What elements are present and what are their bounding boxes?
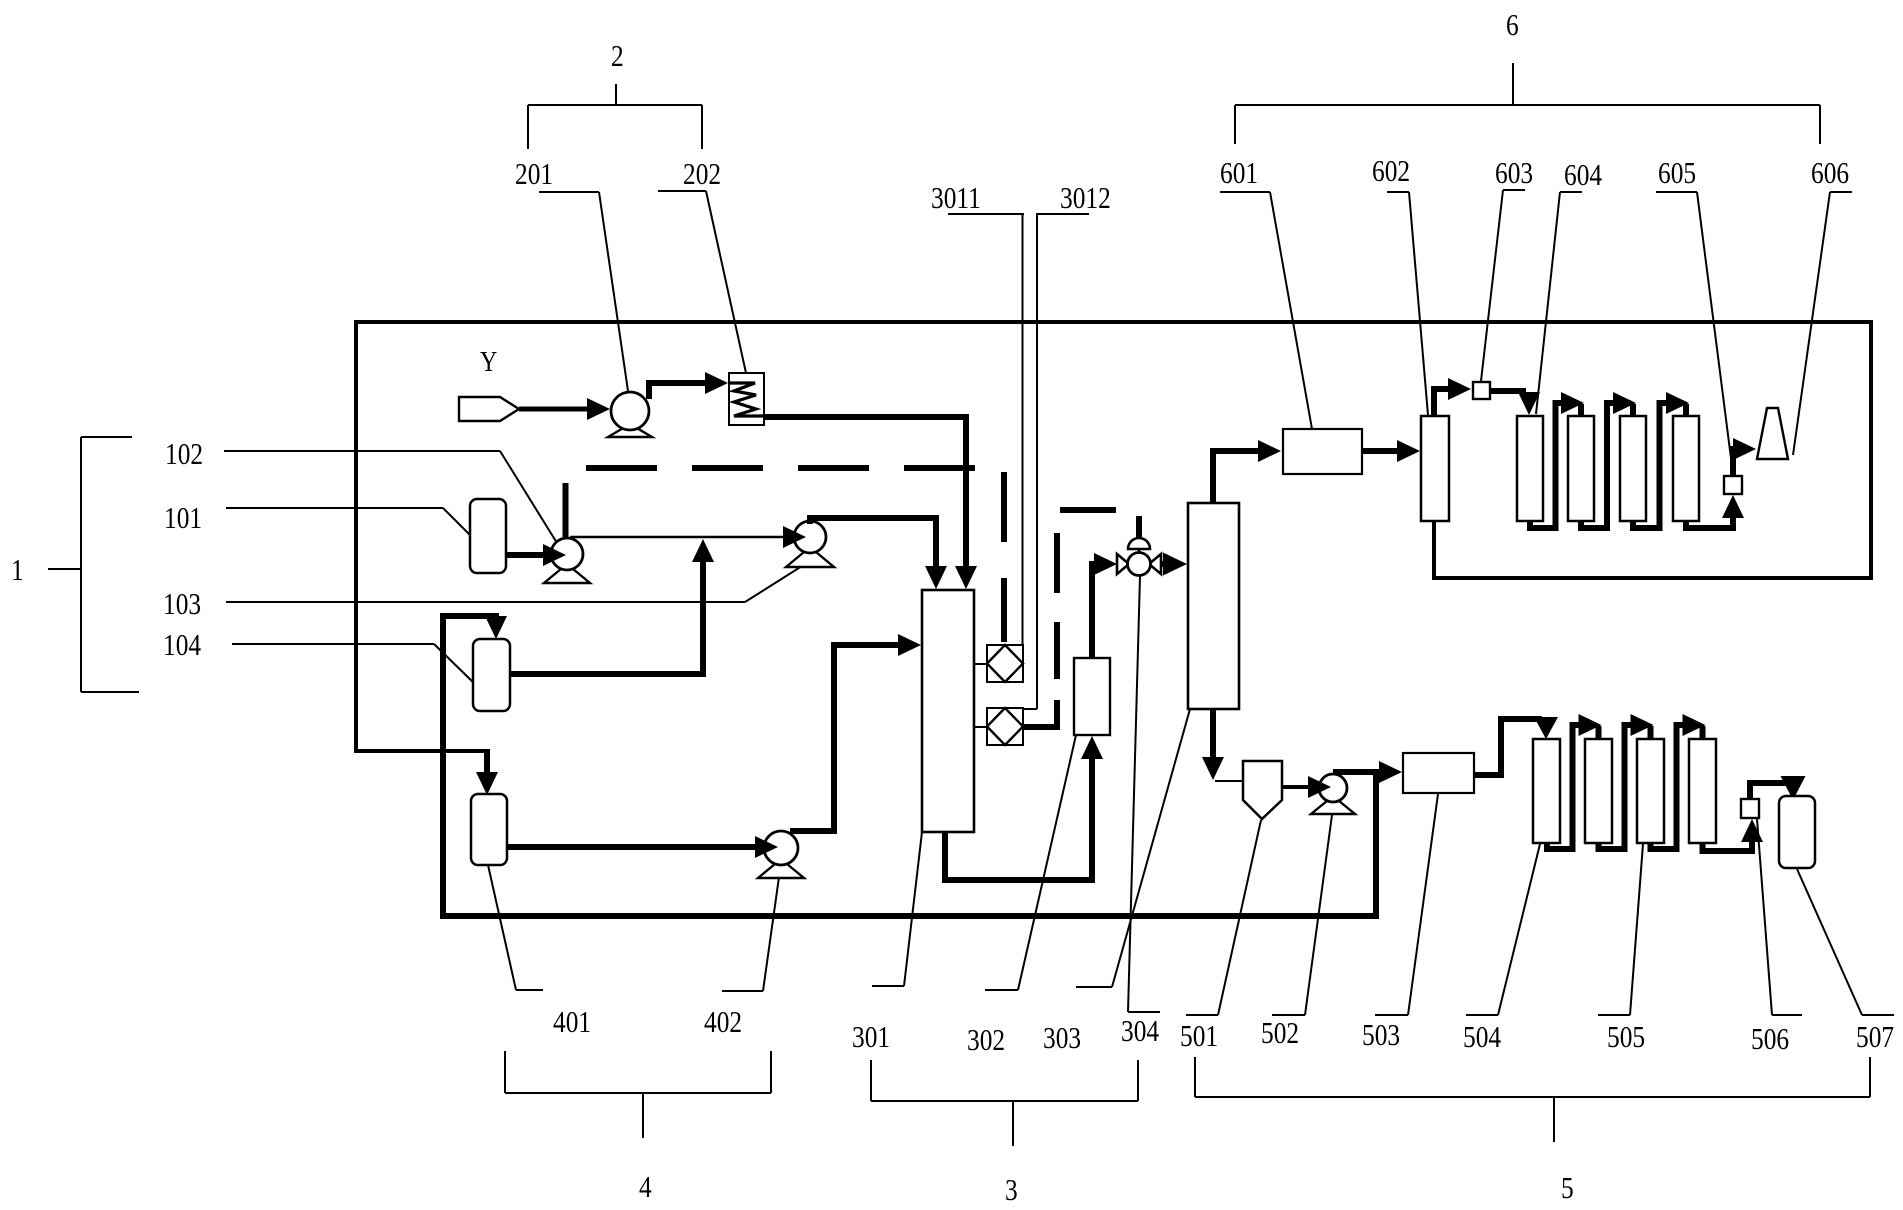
svg-text:601: 601 — [1220, 157, 1258, 191]
label 606 — [1811, 157, 1849, 191]
svg-text:4: 4 — [639, 1171, 652, 1205]
valve stem — [1136, 516, 1142, 539]
leader 507 — [1797, 869, 1894, 1015]
svg-text:201: 201 — [515, 158, 553, 192]
leader 603 — [1481, 190, 1525, 381]
pump 102 — [544, 538, 590, 583]
label 2 — [611, 40, 624, 74]
leader 3011 — [948, 214, 1024, 645]
svg-text:602: 602 — [1372, 155, 1410, 189]
signal dash vertical near valve — [1057, 510, 1116, 679]
pipe: column 303 bottom — [1202, 709, 1243, 781]
pump 502 — [1311, 774, 1355, 814]
svg-text:302: 302 — [967, 1024, 1005, 1058]
svg-text:604: 604 — [1564, 159, 1602, 193]
pipe: square 506 to vessel 507 — [1750, 776, 1806, 800]
label 304 — [1121, 1015, 1159, 1049]
svg-text:1: 1 — [11, 554, 24, 588]
svg-text:504: 504 — [1463, 1021, 1501, 1055]
svg-text:101: 101 — [164, 502, 202, 536]
svg-text:605: 605 — [1658, 157, 1696, 191]
square 605 — [1724, 476, 1742, 494]
leader 506 — [1757, 819, 1802, 1015]
pump 201 — [608, 392, 652, 437]
connector 504c-d — [1651, 714, 1706, 849]
svg-text:Y: Y — [480, 345, 497, 378]
pipe: Y to pump 201 — [519, 398, 610, 420]
pipe: square 603 to column 604a — [1490, 391, 1540, 415]
leader 303 — [1076, 709, 1190, 987]
leader 302 — [985, 735, 1076, 990]
svg-text:2: 2 — [611, 40, 624, 74]
vessel 302 — [1074, 658, 1110, 735]
svg-text:304: 304 — [1121, 1015, 1159, 1049]
pipe: feed into vessel 104 — [443, 616, 507, 913]
square 603 — [1473, 382, 1490, 399]
svg-text:402: 402 — [704, 1006, 742, 1040]
pipe: vessel 101 to pump 102 — [506, 544, 566, 566]
label 5 — [1561, 1172, 1574, 1206]
separator 501 — [1243, 761, 1282, 819]
svg-text:401: 401 — [553, 1006, 591, 1040]
leader 604 — [1536, 192, 1582, 414]
leader 601 — [1220, 192, 1312, 429]
square 506 — [1741, 799, 1759, 818]
svg-text:503: 503 — [1362, 1019, 1400, 1053]
label 202 — [683, 158, 721, 192]
label 401 — [553, 1006, 591, 1040]
svg-text:603: 603 — [1495, 157, 1533, 191]
pipe: box 503 to column 504a — [1474, 717, 1558, 775]
leader 101 — [226, 508, 471, 536]
pipe: square 605 to chimney 606 — [1733, 438, 1756, 476]
connector 504a-b — [1547, 714, 1602, 849]
filter stub 3012 — [974, 726, 987, 728]
label 502 — [1261, 1017, 1299, 1051]
pipe: recycle loop top/left/right — [356, 322, 1871, 751]
vessel 104 — [473, 639, 510, 711]
column 303 — [1188, 503, 1239, 709]
label 102 — [165, 438, 203, 472]
svg-text:507: 507 — [1856, 1021, 1894, 1055]
leader 501 — [1186, 820, 1261, 1015]
filter 3012 — [987, 708, 1023, 745]
label 507 — [1856, 1021, 1894, 1055]
filter 3011 — [987, 645, 1023, 682]
label 301 — [852, 1021, 890, 1055]
group bracket 1 — [48, 437, 139, 692]
bracket 6 — [1235, 63, 1820, 144]
svg-text:501: 501 — [1180, 1020, 1218, 1054]
label 3012 — [1060, 182, 1111, 216]
label 201 — [515, 158, 553, 192]
label 602 — [1372, 155, 1410, 189]
vessel 401 — [471, 794, 507, 865]
svg-text:104: 104 — [163, 629, 201, 663]
box 601 — [1283, 429, 1362, 474]
label 506 — [1751, 1023, 1789, 1057]
label 103 — [163, 588, 201, 622]
svg-text:202: 202 — [683, 158, 721, 192]
box 503 — [1403, 753, 1474, 793]
svg-text:3011: 3011 — [931, 182, 981, 216]
leader 102 — [224, 451, 557, 543]
bracket 3 — [871, 1060, 1138, 1146]
pipe: column 301 bottom to vessel 302 — [945, 736, 1103, 880]
svg-text:606: 606 — [1811, 157, 1849, 191]
pipe: filter 3012 elbow — [1023, 700, 1057, 727]
pipe: valve 304 to column 303 — [1161, 553, 1187, 576]
leader 402 — [722, 877, 779, 991]
leader 103 — [226, 566, 802, 602]
leader 301 — [872, 832, 922, 986]
column 301 — [922, 590, 974, 832]
svg-text:506: 506 — [1751, 1023, 1789, 1057]
leader 504 — [1466, 844, 1540, 1015]
pipe: HX 202 to column 301 — [764, 417, 977, 589]
leader 401 — [488, 865, 543, 990]
pump 103 — [786, 521, 834, 567]
pipe: 501 to pump 502 — [1282, 776, 1331, 798]
bracket 2 — [528, 84, 702, 149]
leader 505 — [1598, 844, 1643, 1015]
pipe: column 303 to box 601 — [1213, 440, 1281, 503]
signal dash vertical to filter 3011 — [1001, 472, 1007, 642]
label 303 — [1043, 1022, 1081, 1056]
pipe: drop into vessel 401 — [476, 749, 498, 795]
column 504-train 2 — [1585, 739, 1612, 843]
label 4 — [639, 1171, 652, 1205]
label 104 — [163, 629, 201, 663]
label 6 — [1506, 9, 1519, 43]
leader 104 — [232, 644, 479, 688]
bracket 5 — [1195, 1057, 1870, 1142]
pump 402 — [758, 831, 804, 878]
column 504-train 4 — [1689, 739, 1716, 843]
label 3 — [1005, 1174, 1018, 1208]
label 601 — [1220, 157, 1258, 191]
pipe: vessel 401 to pump 402 — [507, 836, 778, 858]
leader 606 — [1793, 192, 1852, 455]
label 505 — [1607, 1021, 1645, 1055]
connector 604b-c — [1581, 392, 1636, 528]
connector 504b-c — [1599, 714, 1654, 849]
svg-text:3012: 3012 — [1060, 182, 1111, 216]
leader 304 — [1128, 576, 1160, 1012]
svg-text:301: 301 — [852, 1021, 890, 1055]
column 504-train 3 — [1637, 739, 1664, 843]
leader 503 — [1375, 794, 1438, 1015]
pipe: bottom recycle line — [440, 913, 1379, 919]
svg-text:303: 303 — [1043, 1022, 1081, 1056]
connector 604c-d — [1633, 392, 1689, 528]
label 604 — [1564, 159, 1602, 193]
vessel 101 — [470, 499, 506, 573]
column 604-train 2 — [1568, 416, 1594, 521]
signal dash line horizontal — [586, 465, 976, 471]
pipe: column train to square 506 — [1703, 819, 1764, 851]
pipe: pump 103 to column 301 top — [810, 518, 947, 589]
pipe: pump 502 to box 503 — [1333, 761, 1402, 783]
label 501 — [1180, 1020, 1218, 1054]
leader 605 — [1656, 192, 1733, 474]
label Y — [480, 345, 497, 378]
leader 202 — [658, 191, 746, 373]
svg-text:5: 5 — [1561, 1172, 1574, 1206]
pipe: box 601 to column 602 — [1362, 440, 1420, 462]
pipe: column 602 to square 603 — [1434, 378, 1471, 416]
svg-text:502: 502 — [1261, 1017, 1299, 1051]
svg-text:6: 6 — [1506, 9, 1519, 43]
svg-text:103: 103 — [163, 588, 201, 622]
label 402 — [704, 1006, 742, 1040]
label 503 — [1362, 1019, 1400, 1053]
pipe: pump 201 to HX 202 — [649, 372, 728, 399]
bracket 4 — [505, 1051, 771, 1138]
leader 602 — [1387, 192, 1428, 415]
svg-text:102: 102 — [165, 438, 203, 472]
label 603 — [1495, 157, 1533, 191]
label 3011 — [931, 182, 981, 216]
label 504 — [1463, 1021, 1501, 1055]
leader 502 — [1272, 815, 1332, 1015]
leader 201 — [539, 192, 628, 391]
connector 604a-b — [1530, 392, 1584, 528]
column 604-train 1 — [1517, 416, 1543, 521]
chimney 606 — [1757, 408, 1788, 459]
label 101 — [164, 502, 202, 536]
valve 304 — [1117, 538, 1161, 576]
label 1 — [11, 554, 24, 588]
label 302 — [967, 1024, 1005, 1058]
svg-text:3: 3 — [1005, 1174, 1018, 1208]
stem above pump 102 — [563, 483, 569, 538]
pipe: vessel 104 outlet — [510, 539, 714, 674]
pipe: pump 402 to column 301 side — [790, 634, 921, 831]
leader 3012 — [1023, 214, 1089, 709]
vessel 507 — [1779, 796, 1815, 868]
column 604-train 4 — [1673, 416, 1699, 521]
column 604-train 3 — [1620, 416, 1646, 521]
filter stub 3011 — [974, 663, 987, 665]
svg-text:505: 505 — [1607, 1021, 1645, 1055]
pipe: recycle riser — [1373, 772, 1379, 919]
heat exchanger 202 — [729, 373, 764, 425]
column 602 — [1421, 416, 1449, 521]
label 605 — [1658, 157, 1696, 191]
column 504-train 1 — [1533, 739, 1560, 843]
pipe: vessel 302 to valve 304 — [1092, 553, 1117, 658]
feed flag Y — [459, 397, 519, 421]
pipe: column train to square 605 — [1686, 495, 1744, 528]
pipe: pump 102 to pump 103 — [570, 526, 806, 548]
